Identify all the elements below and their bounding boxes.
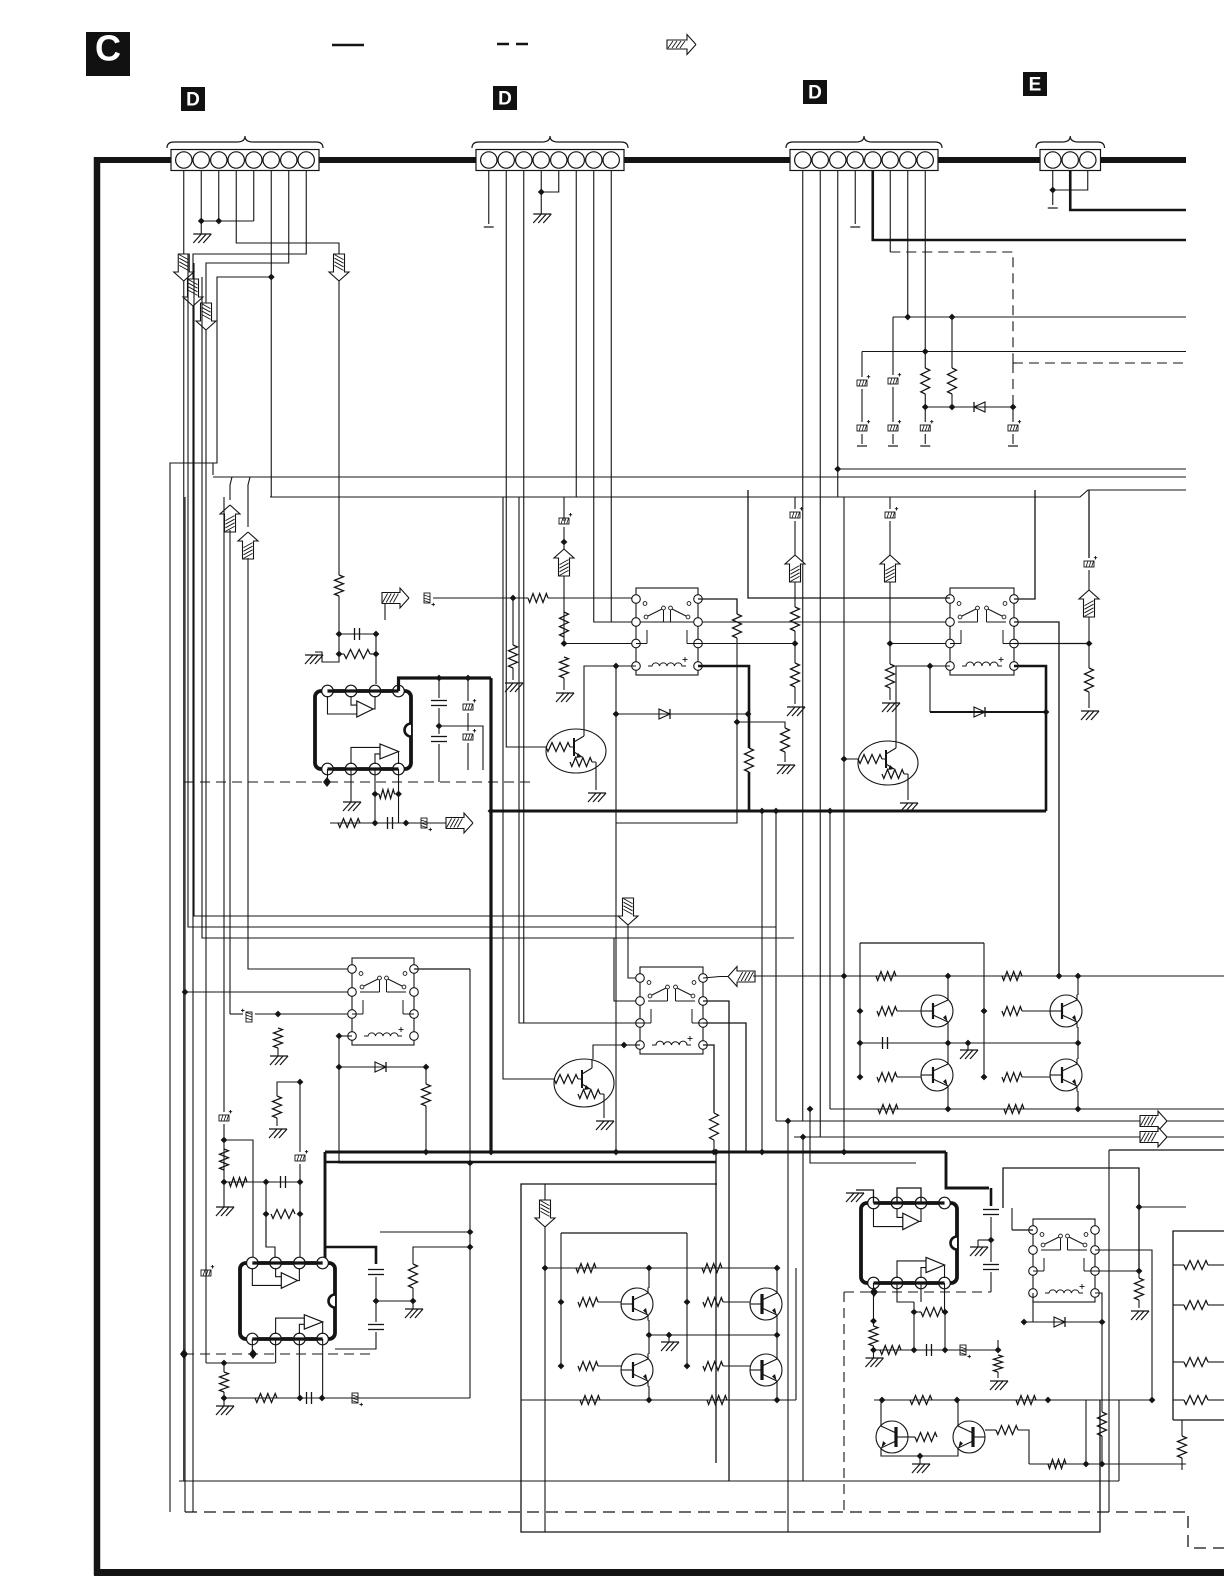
- wire IC2 top bus thick: [252, 1261, 322, 1264]
- signal arrow A15 up: [238, 532, 258, 559]
- wire CN-D2 pin4: [540, 171, 542, 192]
- junction: [467, 1229, 474, 1236]
- wire Q8 base: [598, 1301, 621, 1303]
- section label C: [86, 32, 130, 76]
- junction: [336, 1064, 343, 1071]
- wire CN-D3 pin6: [889, 171, 891, 252]
- junction: [734, 719, 741, 726]
- wire CN-D2 pin1: [488, 171, 490, 224]
- wire IC1 pin5: [326, 769, 328, 782]
- junction: [1083, 1461, 1090, 1468]
- wire row y1182: [224, 1181, 300, 1183]
- junction: [372, 791, 379, 798]
- junction: [922, 348, 929, 355]
- wire row y1400: [944, 1399, 1152, 1401]
- junction: [373, 651, 380, 658]
- wire x830 down: [829, 811, 831, 1109]
- capacitor C20: [888, 373, 901, 384]
- resistor R7: [733, 614, 742, 638]
- junction: [488, 808, 495, 815]
- wire RL5 pin3R: [1095, 1270, 1139, 1272]
- wire: [467, 713, 469, 731]
- resistor R4: [509, 645, 518, 668]
- wire x810 vertical: [810, 1109, 916, 1163]
- wire R4 tap: [512, 598, 514, 645]
- resistor R45: [1002, 1073, 1022, 1082]
- capacitor C50: [983, 1209, 999, 1211]
- resistor R73: [1184, 1358, 1208, 1367]
- capacitor C25: [1008, 420, 1021, 431]
- wire CN-D3 pin3 to Q2: [838, 469, 858, 759]
- junction: [857, 1074, 864, 1081]
- wire row y1363: [206, 1362, 275, 1364]
- transistor Q13: [953, 1421, 985, 1453]
- wire: [889, 688, 891, 700]
- wire Q10 emitter: [648, 1386, 650, 1400]
- wire Q13 top: [957, 1400, 959, 1421]
- wire: [412, 1288, 414, 1301]
- junction: [988, 1237, 995, 1244]
- resistor R2: [344, 650, 370, 659]
- wire thick x946 drop: [946, 1152, 989, 1188]
- wire R11 to ground: [563, 678, 565, 690]
- wire to IC2 pin1: [224, 1140, 253, 1263]
- resistor R42: [877, 1007, 897, 1016]
- junction: [646, 1265, 653, 1272]
- wire thick branch y1162: [325, 1161, 716, 1164]
- signal arrow A11 right: [1140, 1127, 1167, 1147]
- wire: [930, 665, 950, 667]
- junction: [945, 1106, 952, 1113]
- wire IC1 pin7: [374, 769, 376, 794]
- wire: [861, 389, 863, 422]
- ground R37: [412, 1301, 414, 1309]
- wire: [889, 521, 891, 556]
- svg-text:D: D: [186, 90, 200, 111]
- junction: [646, 1397, 653, 1404]
- wire Q11 emitter: [776, 1386, 778, 1400]
- wire x185 long: [184, 497, 186, 1512]
- legend solid line: [332, 44, 364, 46]
- wire RL4 pin1R stub: [703, 977, 728, 979]
- wire thick trunk y811: [491, 810, 1046, 813]
- wire x224 lower: [223, 1124, 225, 1207]
- resistor R21: [948, 368, 957, 394]
- wire row y1398: [224, 1397, 470, 1399]
- junction: [510, 595, 517, 602]
- signal arrow A7 right: [446, 813, 473, 833]
- wire CN-D1 pin6 down to trunk2: [270, 171, 272, 497]
- terminator: [888, 445, 898, 447]
- signal arrow A10 right: [1140, 1111, 1167, 1131]
- junction: [372, 820, 379, 827]
- junction: [965, 1040, 972, 1047]
- capacitor C21: [888, 420, 901, 431]
- wire exit y317: [893, 316, 1186, 318]
- junction: [911, 1309, 918, 1316]
- ground Q1: [588, 793, 606, 802]
- wire RL4 pin2R: [703, 1001, 729, 1481]
- wire IC1 bus to x491 thick: [399, 678, 491, 691]
- wire row y823: [330, 822, 447, 824]
- junction: [621, 1042, 628, 1049]
- wire Q6 base: [897, 1076, 921, 1078]
- wire row y1268: [545, 1267, 777, 1269]
- wire feed y916: [194, 263, 628, 916]
- wire RL3 pin1R: [414, 968, 470, 970]
- junction: [684, 1363, 691, 1370]
- wire x984: [983, 943, 985, 1011]
- wire: [794, 521, 796, 556]
- wire: [438, 708, 440, 734]
- junction: [542, 1265, 549, 1272]
- wire x248 to RL3 pin1: [248, 558, 352, 969]
- signal arrow A4 down: [329, 254, 349, 281]
- wire CN-D1 pin2: [200, 171, 202, 221]
- junction: [942, 1309, 949, 1316]
- capacitor C3: [431, 700, 447, 702]
- diode D2: [974, 707, 985, 717]
- capacitor C22: [857, 375, 870, 386]
- capacitor C37: [306, 1392, 308, 1404]
- capacitor C30: [241, 1009, 252, 1022]
- wire CN-D2 pin3 to RL4: [524, 171, 640, 1023]
- wire Q5 emitter to Q7: [1077, 1027, 1079, 1059]
- junction: [887, 640, 894, 647]
- capacitor C52: [926, 1344, 928, 1356]
- terminator: [1048, 207, 1058, 209]
- ground strip2: [540, 192, 542, 214]
- wire y1150 right: [1109, 1149, 1224, 1151]
- wire: [924, 407, 926, 422]
- capacitor C1: [339, 633, 376, 635]
- junction: [215, 218, 222, 225]
- wire IC2 pin6: [275, 1339, 277, 1363]
- transistor Q2 digital: [858, 741, 918, 785]
- wire x300 upper: [299, 1082, 301, 1152]
- capacitor C7: [387, 817, 389, 829]
- junction: [558, 1363, 565, 1370]
- wire x1102 down: [1101, 1322, 1103, 1412]
- wire row y1464: [1029, 1463, 1186, 1465]
- wire: [438, 744, 440, 782]
- ground R8: [777, 765, 795, 774]
- transistor Q9: [750, 1288, 782, 1320]
- junction: [467, 1244, 474, 1251]
- wire row y1335: [649, 1334, 777, 1336]
- wire Q12 top: [880, 1400, 882, 1421]
- wire arrows line y1121: [776, 1120, 1224, 1122]
- wire Q8 collector: [648, 1268, 650, 1288]
- ground row y1335: [668, 1335, 670, 1342]
- junction: [558, 1299, 565, 1306]
- resistor R20: [921, 368, 930, 394]
- wire CN-D2 pin2 to Q1 base: [506, 171, 546, 747]
- ground R4: [505, 683, 523, 692]
- resistor R3: [528, 594, 548, 603]
- junction: [870, 1347, 877, 1354]
- ground R13: [787, 707, 805, 716]
- junction: [759, 808, 766, 815]
- wire exit y351: [862, 351, 1186, 353]
- wire: [1012, 407, 1014, 422]
- resistor R62: [994, 1355, 1003, 1372]
- resistor R72: [1184, 1301, 1208, 1310]
- junction: [1099, 1461, 1106, 1468]
- wire to RL4 pin2: [614, 938, 640, 1001]
- wire thick trunk3 y1152: [325, 1151, 946, 1154]
- capacitor C6: [463, 729, 476, 740]
- wire IC2 pin5: [251, 1339, 253, 1354]
- terminator: [1008, 445, 1018, 447]
- wire: [1138, 1271, 1140, 1278]
- ground R64: [1131, 1311, 1149, 1320]
- junction: [221, 1137, 228, 1144]
- wire: [398, 794, 400, 823]
- wire: [1012, 434, 1014, 444]
- capacitor C2: [424, 593, 435, 606]
- wire x170 tail: [169, 1511, 171, 1513]
- junction: [263, 1211, 270, 1218]
- wire diode row RL5: [1024, 1321, 1102, 1323]
- wire RL2 pin1R up: [1014, 490, 1035, 599]
- section label D2: [493, 86, 517, 110]
- wire trunk1: [213, 476, 1186, 478]
- wire CN-D1 pin1 long vertical: [183, 171, 185, 1481]
- wire dashed net1: [890, 252, 1013, 363]
- junction: [297, 1395, 304, 1402]
- capacitor C5: [463, 699, 476, 710]
- wire RL1 pin4R thick: [698, 666, 749, 748]
- resistor R60: [869, 1326, 878, 1346]
- wire IC1 top bus thick: [327, 689, 398, 692]
- junction: [319, 1395, 326, 1402]
- wire x519 to RL4 pin3: [519, 497, 640, 1023]
- capacitor C23: [857, 420, 870, 431]
- wire: [872, 1321, 874, 1326]
- junction: [995, 1347, 1002, 1354]
- capacitor C51: [983, 1264, 999, 1266]
- wire thick x991 drop: [990, 1188, 993, 1206]
- ground R15: [1081, 711, 1099, 720]
- wire arrows line y1137: [794, 1136, 1224, 1138]
- junction: [785, 1118, 792, 1125]
- section label E: [1023, 72, 1047, 96]
- junction: [561, 539, 568, 546]
- wire R1 to C1: [338, 596, 340, 634]
- resistor R43: [1002, 1007, 1022, 1016]
- wire tap: [737, 722, 785, 728]
- wire Q2 emitter: [907, 785, 909, 800]
- capacitor C24: [920, 420, 933, 431]
- connector CN-D1: [171, 150, 319, 171]
- junction: [1136, 1268, 1143, 1275]
- junction: [942, 1347, 949, 1354]
- resistor R44: [877, 1073, 897, 1082]
- wire IC1 pin8: [398, 769, 400, 794]
- resistor R47: [1004, 1105, 1024, 1114]
- junction: [613, 1149, 620, 1156]
- wire x230 down: [229, 530, 231, 1014]
- signal arrow A8 up: [785, 555, 805, 582]
- capacitor C31: [219, 1110, 232, 1121]
- wire: [467, 743, 469, 770]
- wire y1232 link: [380, 1231, 470, 1233]
- resistor R38: [220, 1372, 229, 1392]
- relay RL1: [636, 588, 698, 675]
- dashed isolation y1292: [844, 1291, 991, 1293]
- capacitor C38: [352, 1393, 363, 1406]
- wire x687 lower: [686, 1302, 688, 1366]
- ground R11: [556, 693, 574, 702]
- junction: [297, 1179, 304, 1186]
- junction: [221, 1179, 228, 1186]
- wire CN-D2 pin7 to RL1 pin2: [594, 171, 636, 622]
- resistor R31: [220, 1149, 229, 1170]
- junction: [646, 1332, 653, 1339]
- ground IC1 pin6: [350, 794, 352, 802]
- wire Q5 collector: [1077, 976, 1079, 995]
- wire tap x230: [230, 477, 232, 500]
- resistor R13: [791, 663, 800, 687]
- relay RL5: [1033, 1219, 1095, 1302]
- junction: [336, 651, 343, 658]
- wire x300 to IC2: [299, 1164, 301, 1263]
- wire: [425, 1067, 427, 1084]
- wire CN-D1 pin4 to IC1: [236, 171, 339, 575]
- wire: [223, 1392, 225, 1398]
- junction: [949, 314, 956, 321]
- wire cap C5: [467, 678, 469, 701]
- wire Q11 base: [723, 1365, 750, 1367]
- wire x788 vertical: [787, 1121, 789, 1532]
- wire R3 to RL1 pin1: [548, 597, 636, 599]
- junction: [800, 1134, 807, 1141]
- wire x930 down: [929, 666, 931, 712]
- wire x224 down: [223, 497, 225, 1112]
- section label D3: [803, 80, 827, 104]
- junction: [870, 1318, 877, 1325]
- junction: [395, 791, 402, 798]
- wire to RL2 pin3: [890, 643, 950, 645]
- wire RL2 pin4R thick drop: [1014, 666, 1046, 811]
- wire: [1088, 570, 1090, 590]
- resistor R68: [915, 1433, 937, 1442]
- capacitor C40: [882, 1037, 884, 1049]
- relay RL3: [352, 958, 414, 1045]
- wire CN-D1 pin6 branch long: [170, 277, 271, 1512]
- resistor R55: [703, 1362, 723, 1371]
- wire Q7 base: [1022, 1076, 1050, 1078]
- wire: [624, 1044, 640, 1046]
- transistor Q8: [621, 1288, 653, 1320]
- junction: [1136, 1204, 1143, 1211]
- border frame bottom: [94, 1569, 1224, 1576]
- wire feed y927: [188, 254, 776, 927]
- wire cap C3: [438, 678, 440, 698]
- junction: [561, 640, 568, 647]
- capacitor C53: [960, 1345, 971, 1358]
- wire cap chain x862: [861, 352, 863, 378]
- capacitor C10: [559, 513, 572, 524]
- wire: [892, 434, 894, 444]
- wire x795: [794, 582, 796, 607]
- wire CN-D1 pin7 long: [206, 171, 289, 1273]
- junction: [945, 973, 952, 980]
- wire RL1 pin1R to x737: [698, 599, 737, 614]
- wire CN-D3 pin8: [924, 171, 926, 352]
- resistor R36: [271, 1210, 295, 1219]
- junction: [336, 1033, 343, 1040]
- svg-text:E: E: [1029, 75, 1042, 96]
- ground Q2: [900, 803, 918, 812]
- wire Q7 emitter: [1077, 1091, 1079, 1109]
- wire A13 down: [544, 1227, 546, 1532]
- wire IC1 pin6: [350, 769, 352, 794]
- transistor Q4: [921, 995, 953, 1027]
- wire R69 down: [1018, 1430, 1029, 1464]
- signal arrow A1 down: [174, 254, 194, 281]
- ground R62: [990, 1381, 1008, 1390]
- wire RL1 pin3R: [698, 643, 795, 645]
- junction: [373, 1298, 380, 1305]
- wire Q4 emitter to Q6: [947, 1027, 949, 1059]
- wire CN-D3 pin4: [854, 171, 856, 224]
- wire IC3 top bus thick: [873, 1201, 944, 1204]
- junction diamond: [249, 1349, 257, 1359]
- junction: [841, 756, 848, 763]
- ground R14: [882, 703, 900, 712]
- dashed isolation x844 down: [843, 1292, 845, 1512]
- junction: [488, 1149, 495, 1156]
- resistor R34: [273, 1096, 282, 1118]
- wire: [276, 1118, 278, 1126]
- resistor R6: [338, 819, 360, 828]
- wire CN-E pin3: [1053, 171, 1088, 190]
- wire RL3 coil: [339, 1035, 352, 1037]
- wire RL5 pin2R: [1095, 1250, 1152, 1400]
- wire CN-D2 pin6: [564, 171, 576, 521]
- wire CN-D3 pin1 long: [803, 171, 1131, 1121]
- legend dashed line: [497, 43, 528, 45]
- wire RL4 coil right: [703, 1045, 714, 1113]
- junction: [436, 723, 443, 730]
- junction: [807, 1106, 814, 1113]
- wire: [375, 634, 377, 654]
- ground Q3: [596, 1121, 614, 1130]
- big box bottom-right area: [521, 1184, 1100, 1532]
- wire: [892, 387, 894, 422]
- signal arrow A6 right: [382, 588, 409, 608]
- junction: [827, 808, 834, 815]
- wire Q3 emitter: [603, 1107, 605, 1118]
- wire A13 feed: [544, 1184, 546, 1201]
- wire dashed net1 down: [1012, 363, 1014, 407]
- op-amp IC2: [240, 1263, 335, 1339]
- wire: [794, 687, 796, 704]
- op-amp IC3: [861, 1203, 957, 1283]
- terminator: [857, 445, 867, 447]
- junction: [1043, 709, 1050, 716]
- wire Q9-Q11: [776, 1320, 778, 1354]
- resistor R11: [560, 657, 569, 678]
- wire x470 vertical: [469, 969, 471, 1398]
- diode D5: [974, 402, 985, 412]
- junction: [1075, 1040, 1082, 1047]
- wire net bottom: [1173, 1419, 1224, 1421]
- wire Q1 emitter: [595, 773, 597, 790]
- svg-text:D: D: [808, 83, 822, 104]
